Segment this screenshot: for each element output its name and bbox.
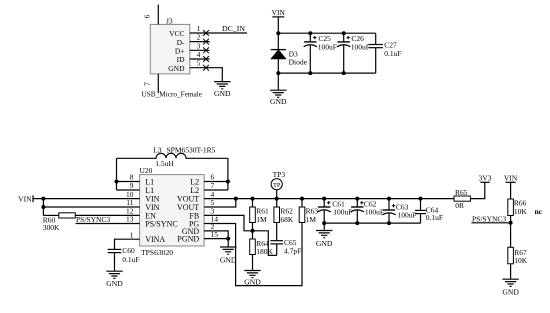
svg-text:VINA: VINA	[145, 235, 165, 244]
node diode bottom junction	[276, 71, 280, 75]
wire J3 pin 5 GND to ground	[190, 68, 223, 82]
svg-text:GND: GND	[270, 97, 287, 106]
wire VIN vertical	[42, 199, 44, 216]
capacitor C26	[343, 33, 345, 42]
node C64 top	[419, 197, 423, 201]
svg-text:0.1uF: 0.1uF	[426, 213, 443, 222]
svg-text:3V3: 3V3	[479, 174, 492, 183]
ground below C60	[106, 271, 122, 278]
svg-text:1M: 1M	[256, 215, 267, 224]
ground below R67	[502, 279, 518, 286]
svg-text:PS/SYNC3: PS/SYNC3	[472, 214, 506, 223]
wire diode branch vertical	[277, 33, 279, 73]
wire VOUT rail	[204, 198, 454, 200]
svg-text:1: 1	[130, 230, 134, 239]
no-connect X on pin 2	[203, 39, 209, 45]
ground below R64	[244, 271, 260, 278]
wire output bottom rail	[324, 222, 420, 224]
node C62 top	[355, 197, 359, 201]
node TP3 rail	[275, 197, 279, 201]
wire to top ground	[277, 73, 279, 90]
connector J3 USB_Micro_Female body	[150, 24, 190, 74]
test point TP3	[271, 179, 282, 190]
svg-text:TP3: TP3	[273, 170, 286, 179]
ground below J3	[214, 82, 230, 89]
wire PS/SYNC3 right	[471, 222, 510, 224]
resistor R66 10K	[508, 199, 514, 216]
svg-text:Diode: Diode	[289, 57, 308, 66]
svg-text:GND: GND	[214, 89, 231, 98]
wire R60 to EN pin 12	[75, 214, 139, 216]
resistor R65 0R	[454, 196, 471, 201]
resistor R63 1M	[301, 199, 303, 207]
wire VIN to pin 10	[33, 198, 140, 200]
svg-text:VIN: VIN	[272, 8, 286, 17]
svg-text:DC_IN: DC_IN	[222, 24, 245, 33]
wire R67 to ground	[510, 264, 512, 279]
IC U20 TPS63020 body	[140, 175, 205, 246]
wire VIN to pin 11	[43, 206, 139, 208]
svg-text:4.7pF: 4.7pF	[284, 246, 301, 255]
no-connect X on pin 5	[203, 65, 209, 71]
node L1 junction	[115, 180, 119, 184]
capacitor C27	[375, 33, 377, 44]
svg-text:5: 5	[197, 59, 201, 68]
capacitor C62 100uF	[356, 199, 358, 207]
resistor R60 300K	[59, 213, 76, 218]
svg-text:PS/SYNC: PS/SYNC	[145, 219, 177, 228]
svg-text:GND: GND	[244, 278, 261, 287]
wire FB to C65	[253, 231, 277, 256]
wire PGND pin 15	[204, 238, 228, 240]
wire inductor right to L2 pins	[227, 158, 229, 190]
svg-text:L3: L3	[153, 146, 162, 155]
capacitor C63 100uF	[388, 199, 390, 210]
wire L1 pin 9	[117, 189, 140, 191]
no-connect X on pin 1	[203, 30, 209, 36]
wire PS/SYNC pin 13	[76, 223, 140, 225]
node pin5 join	[234, 197, 238, 201]
wire to output ground	[323, 223, 325, 230]
inductor L3 SPM6530T-1R5 1.5uH	[117, 153, 228, 158]
svg-text:4: 4	[197, 50, 201, 59]
svg-text:300K: 300K	[43, 223, 60, 232]
node C25 top	[308, 31, 312, 35]
svg-text:100uF: 100uF	[351, 43, 370, 52]
node C61 top	[322, 197, 326, 201]
svg-text:13: 13	[126, 215, 134, 224]
node C62 bottom	[355, 221, 359, 225]
wire FB pin 3 jog	[204, 215, 252, 230]
svg-text:68K: 68K	[280, 215, 294, 224]
capacitor C65 4.7pF	[270, 240, 283, 242]
svg-text:10K: 10K	[514, 256, 528, 265]
svg-text:PS/SYNC3: PS/SYNC3	[76, 215, 110, 224]
wire L1 pin 8	[117, 181, 140, 183]
ground below pins 2 and 15	[220, 247, 236, 254]
node C25 bottom	[308, 71, 312, 75]
svg-text:0.1uF: 0.1uF	[122, 255, 139, 264]
capacitor C25	[309, 33, 311, 42]
wire bottom rail	[278, 72, 375, 74]
svg-text:180K: 180K	[256, 247, 273, 256]
wire GND pin 2	[204, 231, 228, 239]
svg-text:nc: nc	[535, 207, 543, 216]
node C63 top	[387, 197, 391, 201]
resistor R67 10K	[508, 247, 514, 263]
wire PG pin 14 path	[204, 223, 302, 286]
resistor R64 180K	[250, 239, 256, 255]
wire inductor left to L1 pins	[116, 158, 118, 190]
svg-text:D-: D-	[177, 38, 185, 47]
wire VIN to R66	[510, 182, 512, 199]
svg-text:GND: GND	[168, 64, 185, 73]
svg-text:TPS63020: TPS63020	[141, 248, 173, 257]
svg-text:VIN: VIN	[504, 174, 518, 183]
svg-text:0R: 0R	[455, 201, 464, 210]
resistor R61 1M	[252, 199, 254, 207]
svg-text:6: 6	[143, 14, 152, 18]
svg-text:10K: 10K	[514, 207, 528, 216]
svg-text:GND: GND	[106, 279, 123, 288]
node FB junction	[251, 229, 255, 233]
svg-text:GND: GND	[316, 239, 333, 248]
svg-text:3: 3	[197, 41, 201, 50]
wire J3 pin 1 VCC to DC_IN	[190, 32, 247, 34]
svg-text:GND: GND	[502, 287, 519, 296]
svg-text:1M: 1M	[306, 215, 317, 224]
wire J3 pin 4 ID	[190, 58, 210, 60]
wire VOUT pin 5 jog	[204, 199, 236, 207]
node R63 rail	[300, 197, 304, 201]
node C63 bottom	[387, 221, 391, 225]
capacitor C60 0.1uF	[108, 248, 122, 250]
node PS/SYNC3 junction	[509, 221, 513, 225]
no-connect X on pin 4	[203, 56, 209, 62]
wire L2 pin 6	[204, 181, 228, 183]
node R61 rail	[251, 197, 255, 201]
svg-text:2: 2	[197, 33, 201, 42]
wire to chip ground	[227, 239, 229, 247]
resistor R62 68K	[276, 199, 278, 207]
wire top VIN rail	[278, 32, 375, 34]
wire R65 to 3V3	[471, 182, 485, 198]
svg-text:TP: TP	[273, 182, 281, 189]
ground below diode	[270, 90, 286, 97]
svg-text:R65: R65	[455, 188, 468, 197]
node C61 bottom	[322, 221, 326, 225]
wire J3 pin 7 shield	[157, 74, 159, 93]
capacitor C61 100uF	[323, 199, 325, 207]
node L2 junction	[226, 180, 230, 184]
svg-text:ID: ID	[177, 55, 185, 64]
wire J3 pin 3 D+	[190, 49, 210, 51]
svg-text:D+: D+	[175, 47, 185, 56]
no-connect X on pin 3	[203, 47, 209, 53]
node pgnd junction	[226, 237, 230, 241]
node C26 bottom	[342, 71, 346, 75]
node C26 top	[342, 31, 346, 35]
wire J3 pin 2 D-	[190, 41, 210, 43]
svg-text:U20: U20	[140, 166, 153, 175]
node diode top junction	[276, 31, 280, 35]
svg-text:100uF: 100uF	[318, 43, 337, 52]
capacitor C64 0.1uF	[420, 199, 422, 211]
svg-text:J3: J3	[166, 17, 173, 26]
wire J3 pin 6 shield	[157, 5, 159, 25]
node VIN junction 1	[41, 197, 45, 201]
wire L2 pin 7	[204, 189, 228, 191]
svg-text:SPM6530T-1R5: SPM6530T-1R5	[167, 146, 216, 155]
svg-text:1.5uH: 1.5uH	[155, 159, 174, 168]
svg-text:0.1uF: 0.1uF	[384, 49, 401, 58]
wire to R60	[43, 214, 58, 216]
svg-text:100uF: 100uF	[333, 207, 352, 216]
wire VINA pin 1	[115, 239, 140, 249]
svg-text:VIN: VIN	[18, 194, 32, 203]
node VIN junction 2	[41, 205, 45, 209]
svg-text:100uF: 100uF	[365, 207, 384, 216]
svg-text:GND: GND	[220, 255, 237, 264]
svg-text:100uF: 100uF	[398, 210, 417, 219]
svg-text:PGND: PGND	[177, 235, 199, 244]
wire R66 to R67	[510, 216, 512, 248]
svg-text:7: 7	[143, 82, 152, 86]
diode D3	[271, 50, 285, 59]
svg-text:USB_Micro_Female: USB_Micro_Female	[142, 90, 203, 99]
ground below C61	[316, 231, 332, 238]
